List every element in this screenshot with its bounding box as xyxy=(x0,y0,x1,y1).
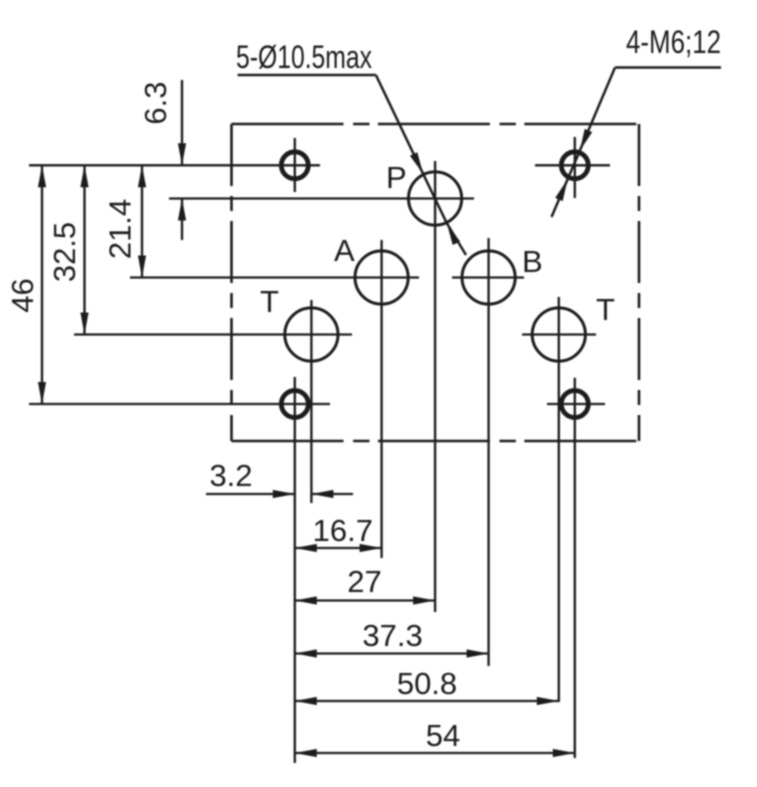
center line horizontal of port B xyxy=(452,276,524,278)
dimension 37.3: line xyxy=(295,652,489,654)
svg-text:6.3: 6.3 xyxy=(138,81,173,124)
dimension 32.5: line xyxy=(83,165,85,334)
svg-text:4-M6;12: 4-M6;12 xyxy=(626,24,721,60)
port A hole (large circle) xyxy=(355,251,408,304)
center line row through port P xyxy=(169,197,474,199)
leader chord through mounting hole F2 xyxy=(568,151,580,180)
valve body outline: left border (chain line) xyxy=(230,124,233,441)
dimension 46: line xyxy=(41,165,43,404)
leader chord through port P xyxy=(423,174,447,224)
svg-text:A: A xyxy=(334,233,355,268)
svg-text:P: P xyxy=(386,160,407,195)
dimension 6.3: lower extension with arrow up xyxy=(181,199,183,241)
dimension 16.7: line xyxy=(295,547,382,549)
svg-text:54: 54 xyxy=(426,718,460,753)
port T hole left (large circle) xyxy=(285,308,338,361)
extension line column B (x=37.3) xyxy=(487,238,489,666)
valve body outline: bottom border (chain line) xyxy=(232,440,640,443)
mounting hole F3 bottom-right (M6 ring) xyxy=(561,391,588,418)
dimension 3.2: right tail with arrow pointing left xyxy=(311,493,353,495)
dimension 27: line xyxy=(295,599,435,601)
center line vertical of mounting hole F2 xyxy=(574,137,576,198)
dimension 54: line xyxy=(295,752,575,754)
center line row through port T (right) xyxy=(522,333,596,335)
valve body outline: top border (chain line) xyxy=(232,123,640,126)
svg-text:B: B xyxy=(522,244,543,279)
center line of mounting hole F2 horizontal xyxy=(535,164,610,166)
svg-text:46: 46 xyxy=(5,278,40,312)
center line row through ports A and B xyxy=(130,276,419,278)
dimension 6.3: upper extension with arrow down xyxy=(181,80,183,165)
extension line column P (x=27) xyxy=(434,161,436,612)
dimension 21.4: line xyxy=(141,165,143,277)
svg-text:32.5: 32.5 xyxy=(47,222,82,282)
leader tail to port B edge xyxy=(447,223,466,255)
extension line column F3 (x=54) xyxy=(574,378,576,758)
svg-text:T: T xyxy=(596,292,615,327)
leader diagonal to port P xyxy=(376,75,423,174)
dimension 3.2: left tail with arrow pointing right xyxy=(206,493,295,495)
leader underline for 4-M6;12 xyxy=(615,66,721,69)
leader underline for 5-Ø10.5max xyxy=(238,74,376,77)
mounting hole F4 bottom-left (M6 ring) xyxy=(281,391,308,418)
port P hole (large circle) xyxy=(409,172,462,225)
center line vertical of mounting hole F1 xyxy=(294,138,296,192)
svg-text:50.8: 50.8 xyxy=(397,666,457,701)
svg-text:T: T xyxy=(260,284,279,319)
port B hole (large circle) xyxy=(462,251,515,304)
svg-text:5-Ø10.5max: 5-Ø10.5max xyxy=(236,39,372,75)
extension line column A (x=16.7) xyxy=(380,240,382,558)
svg-text:21.4: 21.4 xyxy=(103,199,138,259)
svg-text:16.7: 16.7 xyxy=(313,513,373,548)
extension line column F4 / x=0 reference down to 54 dim xyxy=(294,377,296,763)
center line row through bottom mounting holes xyxy=(29,403,330,405)
svg-text:3.2: 3.2 xyxy=(209,458,252,493)
mounting hole F2 top-right (M6 ring) xyxy=(561,152,588,179)
center line row y=165 through mounting holes F1 xyxy=(29,164,320,166)
svg-text:27: 27 xyxy=(347,564,381,599)
center line of mounting hole F3 horizontal xyxy=(547,403,605,405)
extension line column T2 (x=50.8) xyxy=(558,297,560,702)
port T hole right (large circle) xyxy=(532,308,585,361)
svg-text:37.3: 37.3 xyxy=(362,618,422,653)
extension line column T1 (x=3.2) xyxy=(310,300,312,503)
dimension 50.8: line xyxy=(295,700,559,702)
mounting hole F1 top-left (M6 ring) xyxy=(281,152,308,179)
leader diagonal to mounting hole F2 xyxy=(580,68,615,151)
valve body outline: right border (chain line) xyxy=(638,124,641,441)
leader tail below mounting hole F2 xyxy=(552,179,568,217)
center line row through port T (left) xyxy=(74,333,352,335)
